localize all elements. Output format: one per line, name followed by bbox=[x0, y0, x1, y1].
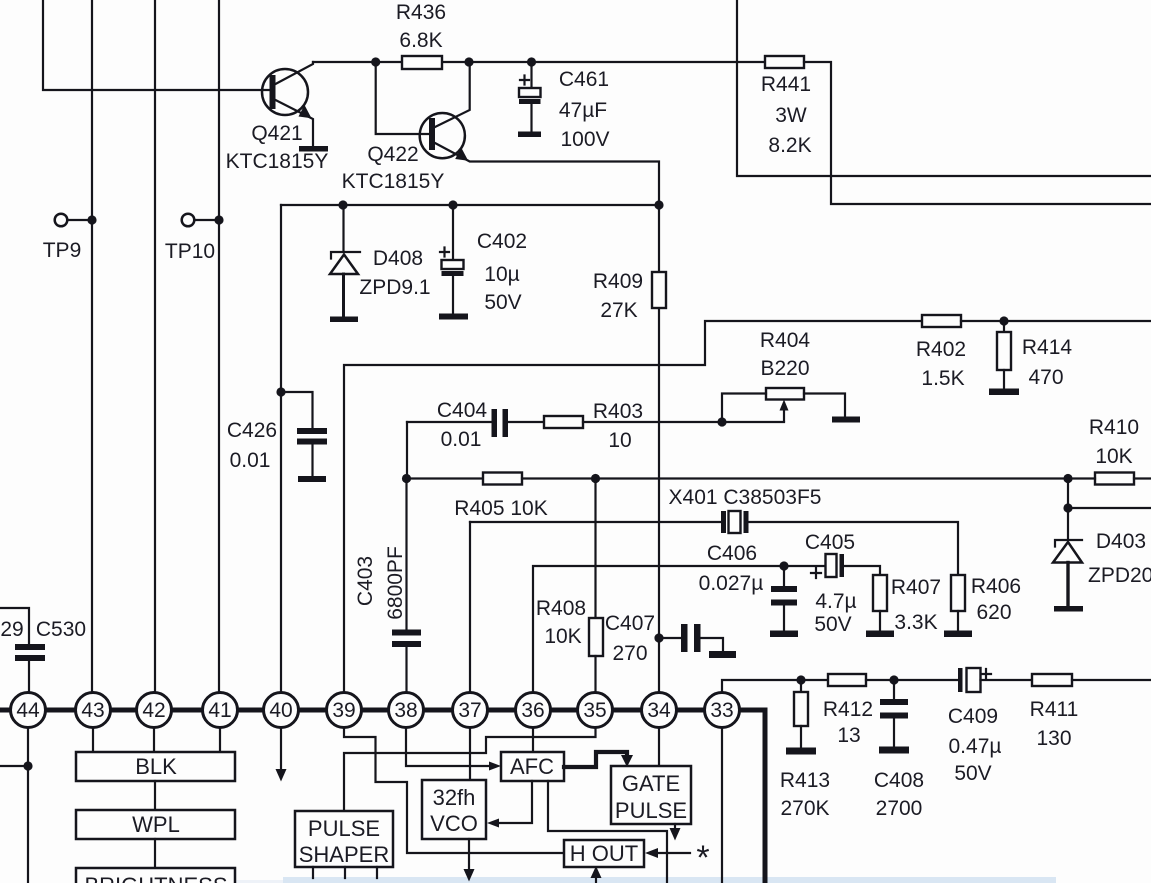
svg-text:BLK: BLK bbox=[135, 754, 177, 779]
wire: pin 39 to H OUT bbox=[344, 727, 564, 853]
svg-text:0.01: 0.01 bbox=[230, 449, 271, 472]
ground (Q421 emitter) bbox=[299, 146, 328, 152]
svg-text:R403: R403 bbox=[593, 400, 643, 423]
capacitor C402 10u 50V (electrolytic) bbox=[440, 205, 527, 314]
svg-text:C407: C407 bbox=[605, 612, 655, 635]
junction bbox=[591, 474, 600, 483]
svg-text:ZPD9.1: ZPD9.1 bbox=[359, 276, 430, 299]
svg-text:27K: 27K bbox=[600, 299, 637, 322]
svg-text:43: 43 bbox=[81, 699, 104, 722]
transistor Q422 KTC1815Y bbox=[342, 62, 659, 205]
wire: pin 40 down arrow bbox=[280, 727, 282, 770]
wire: R441 output down and right to edge bbox=[804, 62, 1151, 204]
svg-text:2700: 2700 bbox=[876, 797, 923, 820]
ground (R407) bbox=[866, 631, 894, 638]
svg-text:C461: C461 bbox=[559, 68, 609, 91]
pin 39 bbox=[327, 693, 362, 728]
junction bbox=[779, 561, 788, 570]
svg-text:620: 620 bbox=[976, 601, 1011, 624]
pin 41 bbox=[203, 693, 238, 728]
svg-text:44: 44 bbox=[16, 699, 40, 722]
wire: AFC to GATE PULSE (thick) bbox=[564, 752, 627, 767]
wire: vertical line x=219 (TP10 net to pin 41) bbox=[218, 0, 220, 700]
svg-text:50V: 50V bbox=[484, 291, 521, 314]
svg-text:50V: 50V bbox=[814, 613, 851, 636]
ground (C407) bbox=[709, 651, 736, 658]
junction bbox=[448, 200, 457, 209]
pin 38 bbox=[389, 693, 424, 728]
resistor R412 13 bbox=[801, 674, 894, 747]
svg-text:D403: D403 bbox=[1096, 530, 1146, 553]
wire: pin 36 stub bbox=[532, 727, 534, 752]
wire bbox=[1068, 507, 1151, 509]
capacitor C461 47uF 100V (electrolytic) bbox=[519, 62, 610, 151]
svg-text:270K: 270K bbox=[780, 797, 829, 820]
junction bbox=[402, 474, 411, 483]
resistor R408 10K bbox=[536, 479, 603, 701]
ground (R406) bbox=[944, 631, 972, 638]
svg-text:100V: 100V bbox=[560, 128, 609, 151]
svg-text:R405 10K: R405 10K bbox=[454, 497, 547, 520]
svg-text:TP9: TP9 bbox=[43, 239, 82, 262]
svg-text:38: 38 bbox=[394, 699, 417, 722]
bottom scan strip bbox=[283, 877, 1056, 883]
ground (C406) bbox=[770, 631, 798, 638]
svg-text:*: * bbox=[696, 839, 709, 877]
resistor R409 27K bbox=[593, 205, 666, 700]
svg-text:34: 34 bbox=[647, 699, 671, 722]
svg-text:32fh: 32fh bbox=[433, 785, 476, 810]
wire: pin 34 to GATE PULSE bbox=[658, 727, 660, 766]
resistor R407 3.3K bbox=[873, 575, 941, 634]
svg-text:47µF: 47µF bbox=[559, 99, 607, 122]
svg-text:0.01: 0.01 bbox=[441, 428, 482, 451]
junction bbox=[889, 675, 898, 684]
svg-text:13: 13 bbox=[837, 724, 860, 747]
wire: top rail y=62 bbox=[313, 61, 765, 63]
wire bbox=[154, 839, 156, 868]
ground (R414) bbox=[989, 389, 1019, 396]
svg-text:R407: R407 bbox=[891, 576, 941, 599]
svg-text:Q422: Q422 bbox=[367, 143, 418, 166]
svg-text:R410: R410 bbox=[1089, 416, 1139, 439]
junction bbox=[1063, 474, 1072, 483]
svg-text:C402: C402 bbox=[477, 230, 527, 253]
junction bbox=[371, 57, 380, 66]
ground (D408) bbox=[330, 317, 358, 323]
pin 42 bbox=[137, 693, 172, 728]
svg-text:B220: B220 bbox=[760, 357, 809, 380]
svg-text:C426: C426 bbox=[227, 419, 277, 442]
svg-text:36: 36 bbox=[521, 699, 544, 722]
junction bbox=[654, 200, 663, 209]
capacitor C406 0.027u bbox=[699, 542, 797, 631]
resistor R441 3W 8.2K bbox=[761, 56, 812, 157]
ground (R413) bbox=[786, 748, 816, 755]
svg-text:3.3K: 3.3K bbox=[894, 611, 937, 634]
svg-text:H OUT: H OUT bbox=[570, 841, 638, 866]
resistor R436 6.8K bbox=[396, 1, 446, 69]
svg-text:KTC1815Y: KTC1815Y bbox=[342, 170, 445, 193]
svg-text:6800PF: 6800PF bbox=[384, 546, 407, 620]
svg-text:10K: 10K bbox=[544, 625, 581, 648]
pin 36 bbox=[516, 693, 551, 728]
svg-text:R414: R414 bbox=[1022, 336, 1073, 359]
ground (R404) bbox=[832, 417, 860, 423]
wire: node to lower right rail y=508 bbox=[1067, 479, 1069, 539]
wire: GATE PULSE down arrow bbox=[674, 824, 676, 829]
wire: pin 33 lower bbox=[721, 727, 723, 883]
crystal X401 C38503F5 bbox=[470, 486, 958, 575]
svg-text:10µ: 10µ bbox=[484, 263, 519, 286]
svg-text:10K: 10K bbox=[1095, 445, 1132, 468]
wire: pin 43 to BLK bbox=[92, 727, 94, 752]
svg-text:40: 40 bbox=[269, 699, 292, 722]
svg-text:C406: C406 bbox=[707, 542, 757, 565]
capacitor C530 bbox=[0, 608, 86, 693]
svg-text:4.7µ: 4.7µ bbox=[815, 590, 856, 613]
junction bbox=[1063, 503, 1072, 512]
box PULSE SHAPER bbox=[295, 811, 393, 878]
svg-text:ZPD200: ZPD200 bbox=[1088, 564, 1151, 587]
resistor R410 10K bbox=[1068, 416, 1151, 485]
capacitor C426 0.01 bbox=[227, 387, 327, 477]
resistor R411 130 bbox=[1030, 674, 1151, 750]
svg-text:TP10: TP10 bbox=[165, 240, 215, 263]
pin 34 bbox=[642, 693, 677, 728]
ground (C408) bbox=[879, 747, 909, 754]
svg-text:35: 35 bbox=[583, 699, 606, 722]
svg-text:WPL: WPL bbox=[132, 812, 180, 837]
capacitor C404 0.01 bbox=[407, 399, 544, 478]
resistor R406 620 bbox=[951, 575, 1021, 631]
svg-text:X401 C38503F5: X401 C38503F5 bbox=[669, 486, 822, 509]
wire: net from pin 39 up and right to R402 bbox=[344, 321, 922, 700]
svg-text:0.47µ: 0.47µ bbox=[949, 735, 1002, 758]
svg-text:3W: 3W bbox=[775, 104, 807, 127]
wire: AFC to VCO bbox=[498, 781, 532, 823]
capacitor C405 4.7u 50V bbox=[784, 531, 880, 636]
junction bbox=[527, 57, 536, 66]
svg-text:50V: 50V bbox=[954, 762, 991, 785]
pin 40 bbox=[264, 693, 299, 728]
svg-text:8.2K: 8.2K bbox=[768, 134, 811, 157]
pin 33 bbox=[705, 693, 740, 728]
svg-text:270: 270 bbox=[612, 642, 647, 665]
wire: vertical x=737 from top, right to edge at y=176 bbox=[737, 0, 1151, 176]
wire: pin 41 to BLK bbox=[219, 727, 221, 752]
svg-text:R412: R412 bbox=[823, 698, 873, 721]
svg-text:AFC: AFC bbox=[510, 754, 554, 779]
IC pin bus bbox=[0, 710, 765, 883]
wire: pin 37 riser bbox=[469, 522, 471, 700]
wire: x=281 down to pin 40 bbox=[280, 205, 282, 700]
zener diode D408 ZPD9.1 bbox=[330, 205, 431, 317]
ground (D403) bbox=[1054, 606, 1083, 612]
box BRIGHTNESS (clipped) bbox=[76, 868, 235, 883]
resistor R403 10 bbox=[544, 400, 784, 452]
box AFC bbox=[501, 752, 564, 781]
resistor R414 470 bbox=[997, 321, 1072, 389]
svg-text:39: 39 bbox=[332, 699, 355, 722]
capacitor C409 0.47u 50V bbox=[894, 668, 1032, 785]
svg-text:PULSE: PULSE bbox=[308, 816, 380, 841]
svg-text:130: 130 bbox=[1036, 727, 1071, 750]
junction bbox=[338, 200, 347, 209]
junction bbox=[23, 761, 32, 770]
svg-text:D408: D408 bbox=[373, 247, 423, 270]
svg-text:R409: R409 bbox=[593, 270, 643, 293]
pin 35 bbox=[578, 693, 613, 728]
junction bbox=[796, 675, 805, 684]
svg-text:42: 42 bbox=[142, 699, 165, 722]
transistor Q421 KTC1815Y bbox=[226, 62, 329, 173]
wire bbox=[154, 781, 156, 810]
svg-text:BRIGHTNESS: BRIGHTNESS bbox=[84, 873, 227, 883]
svg-text:C405: C405 bbox=[805, 531, 855, 554]
svg-text:R411: R411 bbox=[1030, 698, 1079, 721]
pin 37 bbox=[453, 693, 488, 728]
wire: pin 35 to PULSE SHAPER bbox=[344, 727, 596, 811]
svg-text:C404: C404 bbox=[437, 399, 488, 422]
box H OUT bbox=[564, 840, 644, 867]
svg-text:C408: C408 bbox=[874, 769, 924, 792]
wire: VCO down arrow bbox=[468, 839, 470, 870]
svg-text:R402: R402 bbox=[916, 338, 966, 361]
wire: pin 36 riser and C406 line bbox=[533, 566, 784, 700]
ground (C402) bbox=[439, 314, 468, 320]
svg-text:C530: C530 bbox=[36, 618, 86, 641]
svg-text:Q421: Q421 bbox=[251, 122, 302, 145]
wire: pin 42 to BLK bbox=[153, 727, 155, 752]
wire: pin 33 riser to R412 node bbox=[722, 680, 801, 700]
wire: rail y=205 bbox=[281, 204, 659, 206]
wire: vertical line x=155 (to pin 42) bbox=[154, 0, 156, 700]
svg-text:GATE: GATE bbox=[622, 771, 680, 796]
box WPL bbox=[76, 810, 235, 839]
potentiometer R404 B220 bbox=[722, 329, 845, 422]
resistor R413 270K bbox=[780, 680, 830, 820]
svg-text:KTC1815Y: KTC1815Y bbox=[226, 150, 329, 173]
wire: pin 44 lower net bbox=[0, 727, 28, 883]
svg-text:R441: R441 bbox=[761, 73, 811, 96]
svg-text:6.8K: 6.8K bbox=[399, 29, 442, 52]
svg-text:VCO: VCO bbox=[430, 811, 478, 836]
svg-text:R413: R413 bbox=[780, 769, 830, 792]
svg-text:41: 41 bbox=[208, 699, 231, 722]
wire: H OUT input arrow from * bbox=[658, 852, 690, 854]
svg-text:1.5K: 1.5K bbox=[921, 367, 964, 390]
wire: AFC lower route bbox=[548, 781, 667, 883]
svg-text:SHAPER: SHAPER bbox=[299, 842, 389, 867]
resistor R405 10K bbox=[407, 473, 1069, 521]
svg-text:PULSE: PULSE bbox=[615, 798, 687, 823]
capacitor C407 270 bbox=[605, 612, 723, 665]
wire: vertical line x=92 (TP9 net to pin 43) bbox=[91, 0, 93, 700]
svg-text:R404: R404 bbox=[760, 329, 811, 352]
svg-text:R408: R408 bbox=[536, 597, 586, 620]
svg-text:37: 37 bbox=[458, 699, 481, 722]
box BLK bbox=[76, 752, 235, 781]
svg-text:0.027µ: 0.027µ bbox=[699, 572, 764, 595]
junction bbox=[999, 316, 1008, 325]
ground (C461) bbox=[518, 132, 541, 138]
resistor R402 1.5K bbox=[916, 315, 1151, 390]
box 32fh VCO bbox=[422, 780, 486, 839]
svg-text:470: 470 bbox=[1028, 366, 1063, 389]
pin 44 bbox=[11, 693, 46, 728]
test point TP9 bbox=[43, 214, 97, 262]
svg-text:33: 33 bbox=[710, 699, 733, 722]
ground (C426) bbox=[298, 476, 326, 482]
svg-text:R406: R406 bbox=[971, 575, 1021, 598]
pin 43 bbox=[76, 693, 111, 728]
svg-text:C403: C403 bbox=[354, 556, 377, 606]
wire: pin 38 to AFC bbox=[406, 727, 492, 766]
test point TP10 bbox=[165, 214, 224, 263]
junction bbox=[464, 57, 473, 66]
box GATE PULSE bbox=[611, 766, 691, 824]
svg-text:R436: R436 bbox=[396, 1, 446, 24]
junction bbox=[717, 417, 726, 426]
svg-text:10: 10 bbox=[608, 429, 631, 452]
svg-text:29: 29 bbox=[0, 618, 23, 641]
wire: H OUT bottom up arrow bbox=[595, 876, 597, 883]
zener diode D403 ZPD200 bbox=[1053, 530, 1151, 606]
wire: pin 37 riser handled above; stub bbox=[469, 727, 471, 780]
svg-text:C409: C409 bbox=[948, 705, 998, 728]
wire: left vertical to Q421 base bbox=[43, 0, 269, 90]
capacitor C403 6800PF bbox=[354, 479, 421, 701]
capacitor C408 2700 bbox=[874, 680, 924, 820]
